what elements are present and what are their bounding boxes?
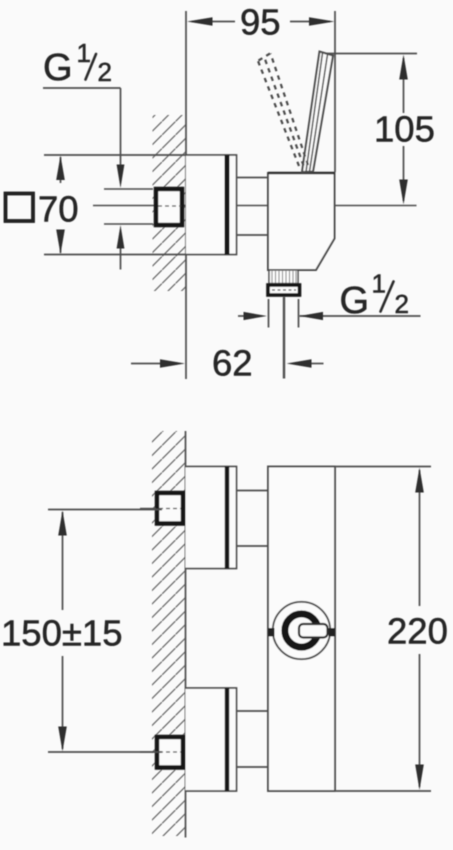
- svg-text:70: 70: [38, 189, 79, 230]
- svg-text:150±15: 150±15: [1, 613, 123, 654]
- svg-text:G: G: [340, 280, 370, 322]
- svg-text:62: 62: [212, 343, 253, 384]
- svg-text:2: 2: [395, 289, 409, 319]
- svg-text:105: 105: [374, 109, 435, 150]
- svg-text:220: 220: [387, 611, 448, 652]
- svg-text:G: G: [43, 47, 73, 89]
- svg-text:1: 1: [372, 269, 386, 299]
- svg-text:1: 1: [77, 38, 91, 68]
- svg-text:2: 2: [98, 57, 112, 87]
- svg-text:95: 95: [240, 2, 281, 43]
